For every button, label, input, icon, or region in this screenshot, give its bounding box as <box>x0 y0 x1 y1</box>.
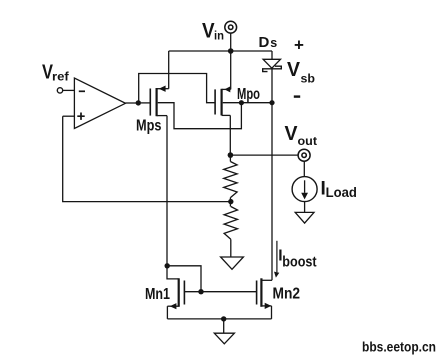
svg-text:ref: ref <box>52 72 69 84</box>
svg-text:V: V <box>287 59 301 81</box>
transistor Mpo channel bar <box>221 89 223 116</box>
terminal Vin inner ring <box>229 25 233 29</box>
svg-text:D: D <box>259 34 270 51</box>
terminal Vref <box>57 88 62 93</box>
node Mn1 drain-gate tie <box>165 263 170 268</box>
resistor R2 <box>224 207 237 240</box>
diode Ds schottky bar <box>263 66 282 71</box>
transistor Mps gate bar <box>149 89 151 116</box>
node ground rail junction <box>221 316 226 321</box>
transistor Mps source arm <box>157 88 169 90</box>
terminal Vin outer ring <box>225 21 237 33</box>
svg-text:boost: boost <box>282 254 316 270</box>
wire rail to ground symbol <box>223 319 225 333</box>
wire ILoad to ground <box>304 202 306 213</box>
svg-text:V: V <box>202 20 215 43</box>
transistor Mn1 channel bar <box>178 278 180 307</box>
svg-text:bbs.eetop.cn: bbs.eetop.cn <box>362 338 436 354</box>
op-amp minus input symbol <box>79 90 85 92</box>
wire R2 to ground <box>230 239 232 257</box>
wire Vin rail to diode Ds <box>271 51 273 60</box>
transistor Mn2 source arrow <box>265 303 272 309</box>
resistor R1 <box>229 155 231 161</box>
transistor Mn2 drain arm <box>261 279 272 281</box>
transistor Mpo source arm <box>222 88 231 90</box>
op-amp U1 <box>74 78 125 129</box>
wire Mps body lead <box>158 103 242 129</box>
wire Vout terminal to ILoad <box>303 161 305 176</box>
ground below ILoad <box>295 212 314 223</box>
transistor Mn2 channel bar <box>260 278 262 307</box>
op-amp plus input symbol <box>77 113 84 120</box>
wire Mps source riser to Vin rail <box>168 51 170 89</box>
transistor Mn2 gate bar <box>256 281 258 305</box>
wire Ds cathode down to Mn2 drain <box>271 68 273 280</box>
node body to cathode junction <box>269 100 274 105</box>
wire op-amp output <box>126 102 139 104</box>
svg-text:Mn1: Mn1 <box>145 286 170 303</box>
wire Mn2 source to rail <box>271 306 273 319</box>
wire Mn1 source to rail <box>166 306 168 319</box>
node Vout junction <box>228 152 234 158</box>
wire ground rail <box>167 318 271 320</box>
wire Vin rail <box>169 50 272 52</box>
svg-text:Mpo: Mpo <box>237 86 260 103</box>
svg-text:in: in <box>214 28 224 42</box>
node op-amp output junction <box>136 100 141 105</box>
wire Mn1 gate tie <box>167 266 201 292</box>
Iboost current arrow <box>276 241 278 272</box>
node Mn1-Mn2 gate junction <box>198 289 203 294</box>
wire plus input lead <box>63 115 75 117</box>
wire gate of Mps <box>141 102 150 104</box>
transistor Mps source arrow <box>159 86 166 92</box>
transistor Mn1 source arm <box>167 305 178 307</box>
node Vin junction <box>228 48 234 54</box>
svg-text:sb: sb <box>301 72 316 86</box>
wire Mpo body lead to Ds cathode line <box>223 102 272 104</box>
wire Vin terminal stem <box>230 33 232 51</box>
wire gate bus Mn1 to Mn2 <box>184 291 256 293</box>
wire gate riser to Mpo <box>139 74 215 103</box>
wire Mpo drain to Vout node <box>229 115 231 155</box>
transistor Mpo gate bar <box>214 89 216 114</box>
wire feedback from plus input to divider tap <box>63 116 229 201</box>
wire Vref input lead <box>63 89 75 91</box>
ground below rail <box>214 333 234 344</box>
svg-text:out: out <box>298 134 318 148</box>
transistor Mn1 source arrow <box>170 303 177 309</box>
transistor Mps drain arm <box>157 115 167 117</box>
current source ILoad arrow <box>304 180 306 193</box>
svg-text:Load: Load <box>326 184 357 200</box>
transistor Mpo drain arm <box>222 114 231 116</box>
terminal Vout outer ring <box>298 149 310 161</box>
diode Ds triangle <box>263 59 280 68</box>
transistor Mn2 source arm <box>261 305 271 307</box>
wire Vout to terminal <box>230 154 298 156</box>
wire Mpo source riser <box>230 51 232 89</box>
svg-text:Mn2: Mn2 <box>273 286 301 303</box>
current source ILoad circle <box>292 177 317 202</box>
node divider tap <box>229 198 231 207</box>
ground below divider <box>221 257 244 269</box>
svg-text:V: V <box>285 123 299 145</box>
svg-text:+: + <box>294 36 304 55</box>
wire Mps drain down to Mn1 <box>167 116 179 279</box>
transistor Mn1 gate bar <box>183 281 185 305</box>
svg-text:Mps: Mps <box>136 118 162 135</box>
node body tie junction <box>239 100 244 105</box>
terminal Vout inner ring <box>302 153 306 157</box>
transistor Mpo source arrow <box>224 86 230 92</box>
transistor Mps channel bar <box>156 88 158 116</box>
label minus sign Vsb <box>294 95 300 97</box>
svg-text:s: s <box>270 36 277 50</box>
